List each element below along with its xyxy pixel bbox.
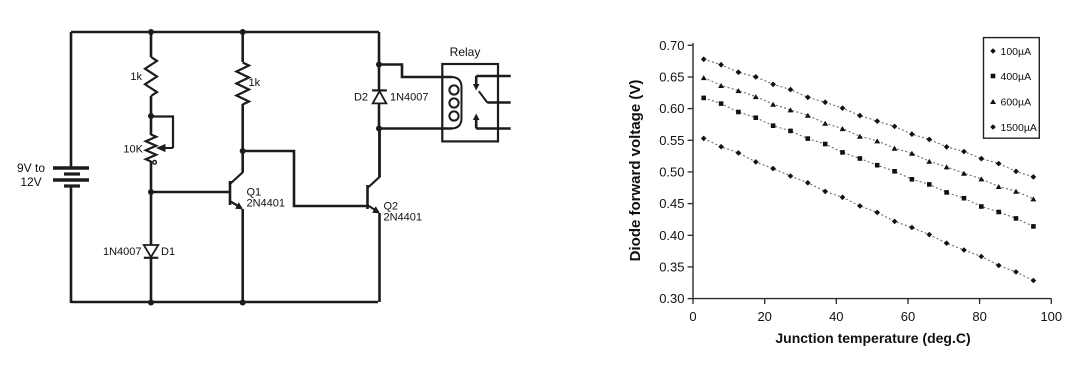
svg-text:0.50: 0.50 [659,164,684,179]
svg-text:Relay: Relay [450,45,481,59]
svg-text:0: 0 [689,309,696,324]
svg-text:0.55: 0.55 [659,133,684,148]
svg-text:9V to: 9V to [17,161,45,175]
svg-text:Diode forward voltage (V): Diode forward voltage (V) [627,80,644,262]
svg-text:20: 20 [757,309,771,324]
svg-text:0.35: 0.35 [659,259,684,274]
svg-text:0.45: 0.45 [659,196,684,211]
svg-text:1k: 1k [130,71,142,83]
svg-text:0.40: 0.40 [659,228,684,243]
svg-text:12V: 12V [20,175,41,189]
svg-text:Junction temperature (deg.C): Junction temperature (deg.C) [775,330,970,346]
svg-text:D1: D1 [161,246,175,258]
svg-text:600µA: 600µA [1001,96,1032,108]
svg-text:100µA: 100µA [1001,46,1032,58]
svg-text:400µA: 400µA [1001,71,1032,83]
svg-text:100: 100 [1040,309,1062,324]
svg-text:80: 80 [972,309,986,324]
svg-text:1k: 1k [249,77,261,89]
svg-text:40: 40 [829,309,843,324]
svg-text:60: 60 [901,309,915,324]
svg-text:2N4401: 2N4401 [247,198,286,210]
svg-text:0.30: 0.30 [659,291,684,306]
svg-text:2N4401: 2N4401 [384,212,423,224]
svg-text:1N4007: 1N4007 [103,246,142,258]
svg-text:0.60: 0.60 [659,101,684,116]
svg-text:0.70: 0.70 [659,38,684,53]
svg-text:1N4007: 1N4007 [390,92,429,104]
svg-text:10K: 10K [123,144,143,156]
svg-text:D2: D2 [354,92,368,104]
svg-text:0.65: 0.65 [659,70,684,85]
svg-text:1500µA: 1500µA [1001,122,1037,134]
